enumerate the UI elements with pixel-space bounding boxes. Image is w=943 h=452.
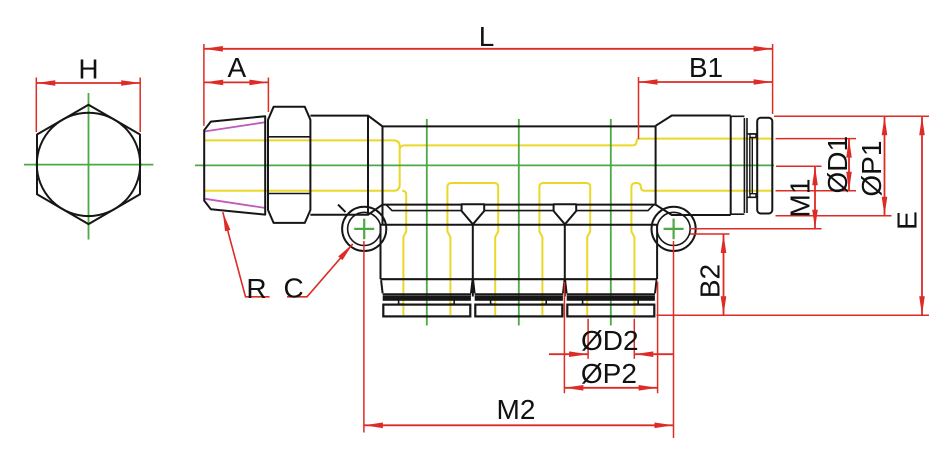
- arrowhead L right: [754, 46, 773, 52]
- port block flange: [381, 278, 658, 280]
- outlet neck verticals: [750, 137, 753, 194]
- hex nut outline: [268, 107, 310, 223]
- dimension line L: [204, 48, 773, 50]
- extension line OD2 left: [587, 319, 589, 359]
- arrowhead E top: [919, 116, 925, 135]
- centermark: right mounting hole C: [664, 219, 684, 240]
- dimension line OP1: [884, 116, 886, 216]
- arrowhead M1 bottom: [812, 210, 818, 229]
- right mounting hole C: [657, 212, 690, 245]
- port 2 collar line: [475, 293, 563, 295]
- port block left edge: [380, 225, 382, 279]
- port 2 end cap: [475, 305, 562, 317]
- port 3 release band: [567, 296, 654, 300]
- dimension line B1: [639, 81, 773, 83]
- barrel front face: [382, 126, 384, 224]
- svg-text:ØP2: ØP2: [581, 358, 637, 389]
- dimension line B2: [723, 234, 725, 315]
- extension line M1 bottom: [690, 228, 822, 230]
- V notch between port 1 and port 2: [462, 204, 485, 224]
- extension line L/A left: [203, 44, 205, 126]
- thread crest line R top: [205, 122, 266, 131]
- outlet step face: [655, 126, 657, 205]
- centerline: end view horizontal: [24, 164, 153, 166]
- svg-text:C: C: [283, 273, 303, 304]
- port 1 collar line: [383, 293, 471, 295]
- arrowhead OP2 left: [564, 385, 583, 391]
- svg-text:A: A: [228, 52, 247, 83]
- hidden line: branch port 3 right bore wall and outlet bore bottom: [631, 183, 772, 315]
- svg-text:B1: B1: [689, 52, 723, 83]
- arrowhead M1 top: [812, 166, 818, 185]
- centerline: end view vertical: [88, 93, 90, 240]
- port 3 collar line: [567, 293, 655, 295]
- collar section bottom: [310, 205, 382, 215]
- hidden line: branch port 1 right / port 2 left bore walls: [447, 183, 498, 315]
- thread crest line R bottom: [205, 199, 266, 208]
- end view hexagon H: [37, 105, 140, 224]
- svg-text:ØD2: ØD2: [581, 325, 639, 356]
- arrowhead OP2 right: [639, 385, 658, 391]
- end view inscribed circle: [37, 113, 140, 216]
- hex nut lower flat boundary: [268, 193, 310, 195]
- centerline: main axis: [195, 164, 774, 166]
- outlet release cap: [757, 118, 772, 214]
- seam port 1/2: [472, 224, 474, 297]
- hex nut upper flat boundary: [268, 136, 310, 138]
- svg-text:B2: B2: [695, 264, 726, 298]
- arrowhead A left: [204, 80, 223, 86]
- arrowhead B2 top: [721, 234, 727, 253]
- arrowhead A right: [249, 80, 268, 86]
- extension line M2 right: [673, 241, 675, 438]
- extension line H right: [139, 78, 141, 133]
- arrowhead leader C: [338, 242, 355, 260]
- V notch between port 2 and port 3: [554, 204, 577, 224]
- svg-text:M2: M2: [497, 394, 536, 425]
- port 2 taper sides: [473, 280, 564, 293]
- left boss flare: [338, 205, 346, 213]
- arrowhead E bottom: [919, 296, 925, 315]
- extension line OP2 right: [657, 282, 659, 393]
- svg-text:E: E: [892, 211, 923, 230]
- barrel bottom: [383, 204, 656, 206]
- arrowhead OD2 left: [569, 351, 588, 357]
- arrowhead H right: [121, 80, 140, 86]
- svg-text:ØD1: ØD1: [822, 136, 853, 194]
- leader R: [223, 212, 270, 297]
- extension line OD1 bottom: [776, 190, 857, 192]
- hidden line: threaded inlet bore with end face: [205, 140, 400, 190]
- outlet sleeve rear edge: [730, 116, 732, 216]
- extension line M2 left: [363, 241, 365, 433]
- arrowhead B1 right: [754, 79, 773, 85]
- arrowhead OP1 top: [882, 116, 888, 135]
- dimension line OP2: [564, 387, 657, 389]
- svg-text:M1: M1: [785, 179, 816, 218]
- outlet sleeve bottom: [656, 205, 731, 215]
- outlet neck tab top: [750, 134, 756, 138]
- arrowhead M2 right: [655, 423, 674, 429]
- arrowhead B1 left: [639, 79, 658, 85]
- arrowhead OD2 right: [634, 351, 653, 357]
- hidden line: branch port 2 right / port 3 left bore walls: [539, 183, 590, 315]
- arrowhead M2 left: [364, 423, 383, 429]
- port block shoulder: [381, 224, 658, 226]
- extension line A right: [267, 78, 269, 113]
- dimension line M2: [364, 424, 674, 426]
- extension line L/B1 right: [772, 44, 774, 114]
- outlet ring edges: [731, 116, 745, 214]
- extension line OD2 right: [633, 319, 635, 359]
- port 3 taper sides: [565, 280, 656, 293]
- port 2 release tabs: [491, 300, 547, 304]
- dimension line M1: [814, 166, 816, 229]
- arrowhead leader R: [220, 211, 230, 231]
- outlet ring verticals: [744, 118, 747, 213]
- arrowhead L left: [204, 46, 223, 52]
- arrowhead B2 bottom: [721, 296, 727, 315]
- centerline: branch port 3: [610, 119, 612, 326]
- port block right edge: [656, 225, 658, 279]
- extension line OP2 left: [563, 282, 565, 393]
- port 1 taper sides: [381, 280, 472, 293]
- left mounting hole C: [348, 212, 381, 245]
- barrel top: [383, 125, 656, 127]
- centerline: branch port 1: [426, 119, 428, 326]
- dimension line OD1: [848, 139, 850, 191]
- arrowhead H left: [36, 80, 55, 86]
- extension line B2 top: [690, 233, 730, 235]
- extension line M1 top: [776, 165, 822, 167]
- left mounting boss outer circle: [342, 207, 386, 251]
- svg-text:ØP1: ØP1: [856, 141, 887, 197]
- dimension line H: [36, 82, 140, 84]
- collar section top: [310, 116, 382, 127]
- port 1 release tabs: [399, 300, 455, 304]
- outlet neck tab bottom: [750, 194, 756, 198]
- leader C: [287, 244, 353, 297]
- port 1 end cap: [383, 305, 470, 317]
- centerline: branch port 2: [518, 119, 520, 326]
- tapered male thread R: [204, 116, 265, 214]
- extension line OD1 top: [776, 138, 857, 140]
- outlet neck edges: [747, 134, 757, 197]
- collar rear face: [367, 116, 369, 215]
- extension line B1 left: [638, 77, 640, 139]
- svg-text:H: H: [78, 54, 98, 85]
- port 1 release band: [383, 296, 470, 300]
- extension line OP1 bottom: [776, 215, 892, 217]
- centermark: left mounting hole C: [354, 219, 374, 240]
- arrowhead OD1 top: [846, 139, 852, 158]
- trough line under barrel: [386, 205, 654, 211]
- port 3 end cap: [567, 305, 654, 317]
- hidden line: gallery bore top and outlet bore top: [400, 139, 772, 149]
- extension line E/B2 bottom: [657, 314, 930, 316]
- arrowhead OP1 bottom: [882, 197, 888, 216]
- arrowhead OD1 bottom: [846, 172, 852, 191]
- dimension line E: [921, 116, 923, 315]
- extension line H left: [35, 78, 37, 133]
- port 3 release tabs: [583, 300, 639, 304]
- dimension line OD2: [549, 353, 673, 355]
- svg-text:L: L: [479, 21, 495, 52]
- extension line E/OP1 top: [774, 115, 929, 117]
- outlet sleeve top: [656, 116, 731, 126]
- hidden line: branch port 1 bore left wall: [402, 191, 406, 315]
- dimension line A: [204, 81, 268, 83]
- svg-text:R: R: [246, 273, 266, 304]
- port 2 release band: [475, 296, 562, 300]
- seam port 2/3: [564, 224, 566, 297]
- right mounting boss outer circle: [652, 207, 696, 251]
